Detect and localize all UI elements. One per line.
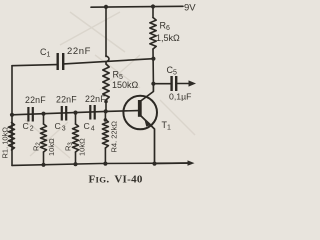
transistor T1 emitter lead [140, 115, 155, 164]
node ladder / R3 top [73, 111, 77, 115]
capacitor C4 left plate [89, 105, 91, 120]
capacitor C1 left plate [57, 53, 59, 70]
node rail / R6 line [151, 4, 155, 8]
wire R4 bottom stub [104, 148, 106, 164]
node R4 zigzag top blob [104, 118, 108, 122]
wire R5 line crossover to resistor top [105, 62, 107, 65]
resistor R4 22k zigzag [102, 120, 108, 149]
node R3 bottom on ground rail [73, 162, 77, 166]
svg-text:R4. 22kΩ: R4. 22kΩ [110, 121, 119, 153]
output arrowhead ground side [188, 160, 195, 165]
svg-text:22nF: 22nF [67, 46, 91, 57]
resistor R3 10k zigzag [73, 124, 79, 152]
node base junction [104, 109, 108, 113]
node collector / C5 junction [151, 82, 155, 86]
capacitor C1 right plate [62, 53, 64, 70]
capacitor C4 right plate [94, 105, 96, 120]
capacitor C2 right plate [32, 107, 34, 122]
svg-text:10kΩ: 10kΩ [78, 138, 87, 156]
capacitor C2 left plate [27, 107, 29, 122]
wire R4 top stub [104, 111, 106, 119]
wire R6 bottom to collector node [152, 49, 154, 84]
capacitor C5 left plate [170, 76, 172, 91]
node R4 bottom on ground rail [103, 162, 107, 166]
node emitter on ground rail [152, 162, 156, 166]
paper background [0, 0, 200, 200]
wire crossover hop of R5 line over C1 wire [106, 56, 109, 62]
svg-text:9V: 9V [184, 3, 196, 14]
capacitor C3 right plate [65, 106, 67, 121]
wire C5 to output arrow [177, 83, 190, 85]
wire R5 bottom to base node [105, 100, 107, 111]
node rail / R5 line [104, 5, 108, 9]
svg-text:150kΩ: 150kΩ [112, 80, 139, 90]
resistor R5 150k zigzag [103, 64, 109, 100]
wire collector node to C5 [153, 83, 170, 85]
wire R2 top stub [43, 114, 45, 124]
svg-text:22nF: 22nF [25, 95, 46, 105]
wire base lead into transistor [106, 110, 138, 113]
svg-text:1,5kΩ: 1,5kΩ [156, 33, 180, 43]
transistor T1 base bar [138, 100, 142, 117]
wire R3 bottom stub [75, 152, 77, 164]
transistor T1 circle [123, 96, 157, 130]
output arrowhead C5 side [189, 80, 197, 86]
capacitor C5 right plate [175, 76, 177, 91]
svg-text:10kΩ: 10kΩ [47, 138, 56, 156]
wire R2 bottom stub [43, 152, 45, 165]
wire top 9V supply rail [91, 5, 183, 8]
resistor R1 10k zigzag [9, 123, 15, 151]
node ladder input / R1 top [10, 113, 14, 117]
wire ground bottom rail [12, 163, 189, 165]
svg-text:22nF: 22nF [85, 94, 106, 104]
svg-text:R1. 10kΩ: R1. 10kΩ [1, 127, 10, 159]
resistor R6 1.5k zigzag [150, 18, 156, 50]
node ladder / R2 top [41, 112, 45, 116]
capacitor C3 left plate [61, 106, 63, 121]
wire phase-shift ladder horizontal [12, 111, 106, 114]
wire R3 top stub [75, 113, 77, 124]
wire C1 feedback line left segment [12, 65, 57, 66]
resistor R2 10k zigzag [41, 124, 47, 152]
node R2 bottom on ground rail [41, 163, 45, 167]
svg-text:FIG. VI-40: FIG. VI-40 [89, 174, 143, 186]
wire R6 branch: rail to resistor [152, 7, 154, 18]
svg-text:0,1µF: 0,1µF [169, 92, 191, 102]
node C1 wire to collector line [151, 57, 155, 61]
caption Fig. VI-40 [89, 174, 143, 186]
wire left branch down from C1 [11, 66, 13, 166]
wire C1 to collector line [64, 59, 154, 64]
svg-text:22nF: 22nF [56, 95, 77, 105]
wire ground rail output stub [155, 162, 190, 165]
wire R5 bias line from rail down to crossover [105, 7, 107, 57]
transistor T1 emitter arrowhead [144, 118, 152, 127]
node R5 zigzag bottom blob [104, 100, 108, 104]
transistor T1 collector lead [140, 84, 153, 102]
